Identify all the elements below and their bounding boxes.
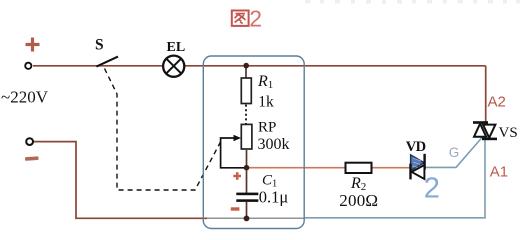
svg-text:G: G xyxy=(449,145,460,160)
svg-text:300k: 300k xyxy=(258,136,290,153)
svg-text:S: S xyxy=(95,37,104,54)
svg-text:1k: 1k xyxy=(258,94,274,111)
svg-text:~220V: ~220V xyxy=(1,87,49,106)
svg-text:2: 2 xyxy=(249,5,262,31)
svg-text:VD: VD xyxy=(406,139,426,155)
svg-text:0.1μ: 0.1μ xyxy=(259,188,289,207)
svg-text:EL: EL xyxy=(167,40,186,55)
svg-text:A1: A1 xyxy=(490,164,508,181)
svg-text:VS: VS xyxy=(499,125,518,141)
svg-text:R1: R1 xyxy=(257,73,273,91)
svg-text:RP: RP xyxy=(258,120,276,136)
svg-text:2: 2 xyxy=(424,173,440,205)
svg-text:200Ω: 200Ω xyxy=(339,191,378,210)
svg-text:A2: A2 xyxy=(488,93,506,110)
